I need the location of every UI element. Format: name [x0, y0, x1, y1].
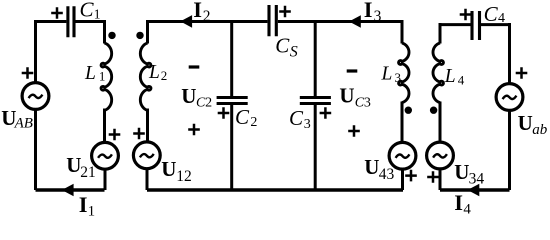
svg-text:U: U: [66, 153, 81, 177]
svg-text:1: 1: [94, 6, 101, 21]
svg-text:21: 21: [80, 164, 96, 181]
svg-text:L: L: [444, 66, 456, 87]
source UAB: [1, 67, 49, 131]
wire loop1 right: [103, 20, 107, 190]
wire loop1 bottom: [36, 188, 105, 191]
svg-text:C: C: [235, 105, 250, 129]
svg-text:3: 3: [304, 117, 311, 132]
svg-text:I: I: [193, 0, 202, 22]
svg-text:I: I: [364, 0, 373, 22]
label UC3 voltage: [339, 71, 371, 137]
wire loop4 bottom: [440, 188, 510, 191]
source U21: [66, 129, 120, 181]
wire top net23: [148, 20, 403, 23]
svg-text:U: U: [161, 157, 176, 181]
current arrow I2: [180, 0, 210, 28]
svg-text:2: 2: [161, 68, 168, 83]
wire loop4 top: [440, 23, 510, 26]
wire bottom net23: [147, 188, 403, 191]
svg-text:4: 4: [458, 73, 465, 88]
svg-text:I: I: [454, 190, 463, 215]
capacitor C4: [460, 2, 505, 40]
svg-text:1: 1: [88, 203, 96, 218]
source U43: [364, 142, 417, 183]
svg-text:4: 4: [463, 202, 471, 218]
dot L4: [430, 107, 437, 114]
current arrow I3: [349, 0, 382, 28]
svg-text:2: 2: [205, 95, 212, 110]
svg-text:L: L: [84, 63, 96, 84]
capacitor C1: [51, 0, 100, 37]
svg-text:ab: ab: [532, 122, 548, 138]
dot L1: [108, 32, 115, 39]
svg-text:AB: AB: [14, 115, 33, 131]
inductor L1: [84, 43, 112, 110]
wire loop3 right: [401, 20, 405, 190]
svg-text:C: C: [275, 34, 290, 58]
svg-text:L: L: [381, 63, 393, 84]
wire C2 branch: [230, 22, 233, 191]
svg-text:1: 1: [99, 68, 106, 83]
current arrow I4: [454, 184, 479, 218]
wire loop4 right: [508, 23, 511, 190]
wire C3 branch: [314, 22, 317, 191]
capacitor C2: [217, 98, 258, 131]
svg-text:3: 3: [395, 70, 402, 85]
svg-text:U: U: [518, 111, 533, 135]
svg-text:C: C: [484, 2, 499, 26]
source U34: [427, 142, 485, 187]
svg-text:2: 2: [203, 8, 211, 25]
capacitor C3: [289, 98, 331, 133]
wire loop1 left: [34, 20, 37, 190]
svg-text:4: 4: [498, 11, 505, 26]
svg-text:43: 43: [379, 166, 395, 183]
capacitor CS: [269, 5, 298, 60]
svg-text:C: C: [80, 0, 95, 22]
svg-text:3: 3: [374, 8, 382, 25]
inductor L3: [381, 43, 410, 103]
svg-text:U: U: [181, 84, 196, 108]
inductor L4: [433, 43, 465, 103]
svg-text:3: 3: [364, 95, 371, 110]
dot L3: [405, 107, 412, 114]
svg-text:34: 34: [469, 170, 485, 187]
source Uab: [496, 67, 548, 138]
inductor L2: [140, 43, 167, 110]
wire loop4 left: [439, 23, 442, 190]
svg-text:U: U: [454, 160, 469, 184]
svg-text:U: U: [339, 84, 354, 108]
wire loop2 left: [146, 20, 150, 190]
svg-text:L: L: [148, 62, 160, 83]
svg-text:U: U: [364, 155, 379, 179]
source U12: [133, 128, 192, 185]
svg-text:I: I: [79, 192, 88, 217]
current arrow I1: [62, 184, 95, 220]
label UC2 voltage: [181, 67, 212, 135]
svg-text:C: C: [289, 106, 304, 130]
svg-text:2: 2: [250, 115, 257, 130]
svg-text:12: 12: [176, 168, 192, 185]
svg-text:S: S: [290, 43, 298, 60]
dot L2: [136, 32, 143, 39]
wire loop1 top: [36, 20, 105, 23]
